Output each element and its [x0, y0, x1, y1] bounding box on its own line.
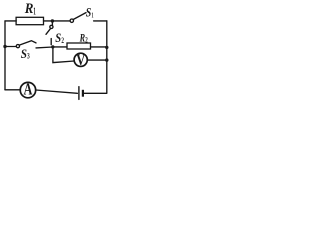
svg-text:1: 1 [33, 7, 35, 18]
svg-text:A: A [24, 80, 33, 99]
svg-text:1: 1 [92, 11, 94, 20]
svg-text:R: R [24, 1, 34, 17]
svg-text:3: 3 [27, 51, 30, 61]
svg-text:S: S [55, 30, 61, 45]
svg-text:2: 2 [85, 34, 88, 44]
svg-text:2: 2 [61, 35, 64, 45]
svg-text:S: S [21, 47, 27, 61]
svg-text:S: S [86, 6, 92, 20]
svg-text:V: V [76, 52, 86, 69]
